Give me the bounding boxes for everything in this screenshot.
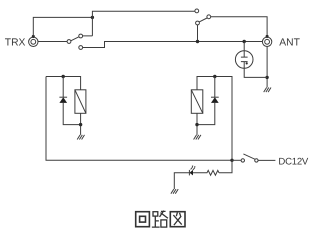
wire to switch bbox=[232, 159, 241, 161]
kanji KAI bbox=[136, 212, 150, 227]
wire TRX up to rail bbox=[33, 17, 92, 36]
ground G1 bbox=[264, 88, 271, 93]
ground G3 bbox=[194, 135, 201, 140]
junction dot G bbox=[213, 75, 216, 78]
switch SW contacts bbox=[241, 159, 244, 162]
relay contact K2 common bbox=[207, 15, 211, 19]
junction dot B bbox=[196, 40, 199, 43]
caption 回路図 bbox=[136, 211, 185, 227]
ground G2 bbox=[77, 135, 84, 140]
junction dot ANT top bbox=[266, 35, 269, 38]
junction dot H bbox=[195, 123, 198, 126]
contact arm K1 bbox=[71, 37, 79, 41]
junction dot E bbox=[62, 75, 65, 78]
svg-text:TRX: TRX bbox=[5, 38, 26, 49]
wire LED branch bbox=[219, 160, 232, 173]
LED D3 arrows bbox=[191, 167, 195, 170]
diode D2 leads bbox=[197, 77, 215, 125]
relay contact K2 lower throw bbox=[196, 21, 200, 25]
neon lamp NE bbox=[235, 51, 253, 69]
wire relay RL1 coil top feed bbox=[46, 77, 81, 90]
ground G4 bbox=[171, 189, 178, 194]
svg-text:ANT: ANT bbox=[279, 38, 300, 49]
connector J2 ANT bbox=[262, 37, 271, 46]
wire 12V loop left and bottom bbox=[46, 77, 232, 161]
junction dot C bbox=[243, 40, 246, 43]
contact arm K2 bbox=[199, 18, 207, 22]
wire LED to ground bbox=[174, 173, 189, 189]
LED D3 bbox=[189, 170, 193, 176]
wire TRX to contact common bbox=[38, 41, 67, 43]
switch SW arm bbox=[243, 154, 255, 159]
diode D1 leads bbox=[63, 77, 80, 125]
wire relay RL2 coil top feed and loop right bbox=[197, 77, 232, 161]
relay contact K1 upper throw bbox=[79, 34, 83, 38]
resistor R1 bbox=[193, 170, 219, 175]
connector J1 TRX bbox=[29, 37, 38, 46]
junction dot I bbox=[230, 159, 233, 162]
wire ANT shell to ground bbox=[266, 47, 268, 88]
wire RL1 coil bottom bbox=[80, 113, 82, 135]
junction dot TRX top bbox=[32, 35, 35, 38]
relay coil RL1 bbox=[75, 90, 86, 114]
diode D2 bbox=[211, 96, 219, 98]
neon lamp NE top lead bbox=[243, 42, 245, 58]
kanji RO bbox=[153, 211, 168, 227]
svg-text:DC12V: DC12V bbox=[278, 157, 309, 168]
neon lamp NE bottom lead bbox=[244, 62, 267, 78]
wire K2 lower throw down to main line bbox=[197, 25, 199, 41]
wire K2 common to ANT bbox=[211, 17, 267, 37]
kanji ZU bbox=[170, 212, 185, 227]
wire RL2 coil bottom bbox=[196, 113, 198, 135]
wire lower throw to main line bbox=[83, 42, 263, 48]
junction dot F bbox=[79, 123, 82, 126]
junction dot A bbox=[91, 16, 94, 19]
diode D1 bbox=[59, 96, 67, 98]
relay contact K2 upper-left throw bbox=[195, 9, 199, 13]
wire contact K1-NO up and top rail bbox=[83, 11, 195, 36]
relay contact K1 lower throw bbox=[79, 46, 83, 50]
wire switch to DC12V bbox=[258, 159, 275, 161]
junction dot D bbox=[265, 76, 268, 79]
relay coil RL2 bbox=[191, 90, 203, 114]
relay contact K1 common bbox=[67, 40, 71, 44]
